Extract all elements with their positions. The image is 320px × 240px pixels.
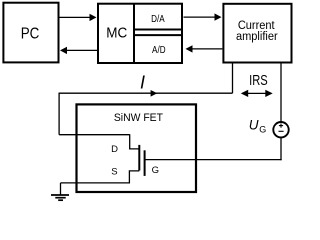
voltage source UG circle <box>273 122 288 137</box>
block Current amplifier <box>223 4 291 63</box>
svg-text:U: U <box>249 117 259 132</box>
plus sign <box>279 124 283 128</box>
arrow MC to PC <box>60 47 97 54</box>
arrow D/A to amplifier <box>184 13 222 20</box>
wire drain horizontal <box>59 134 130 136</box>
svg-text:S: S <box>111 166 117 177</box>
arrow PC to MC <box>60 14 97 21</box>
arrowhead current direction I <box>151 90 158 97</box>
transistor gate bar <box>144 150 146 176</box>
svg-text:G: G <box>259 125 266 135</box>
transistor channel bar <box>138 145 140 171</box>
block MC <box>98 4 182 63</box>
svg-text:D: D <box>111 144 118 155</box>
wire I horizontal <box>59 92 232 94</box>
block D/A <box>134 13 182 29</box>
svg-text:SiNW FET: SiNW FET <box>114 112 163 124</box>
wire amplifier bottom-left down <box>232 63 234 94</box>
svg-text:I: I <box>140 73 145 93</box>
block PC <box>3 3 58 63</box>
IRS double arrow <box>241 90 273 97</box>
wire amplifier bottom-right down to UG <box>280 63 282 122</box>
wire source bend <box>61 171 140 183</box>
wire gate up to source UG <box>280 138 282 160</box>
label UG <box>249 117 267 134</box>
svg-text:PC: PC <box>21 26 40 43</box>
svg-text:G: G <box>152 165 159 176</box>
svg-text:A/D: A/D <box>152 44 166 55</box>
svg-text:IRS: IRS <box>249 71 268 88</box>
arrow amplifier to A/D <box>186 45 223 52</box>
wire gate horizontal <box>145 159 282 161</box>
block SiNW FET <box>77 104 197 192</box>
svg-text:MC: MC <box>106 24 127 41</box>
wire left vertical to drain <box>58 93 60 135</box>
svg-text:D/A: D/A <box>151 13 165 24</box>
minus sign <box>279 130 284 132</box>
block A/D <box>134 35 182 55</box>
ground <box>51 183 69 200</box>
svg-text:amplifier: amplifier <box>236 31 278 43</box>
wire drain bend into FET <box>130 134 140 149</box>
